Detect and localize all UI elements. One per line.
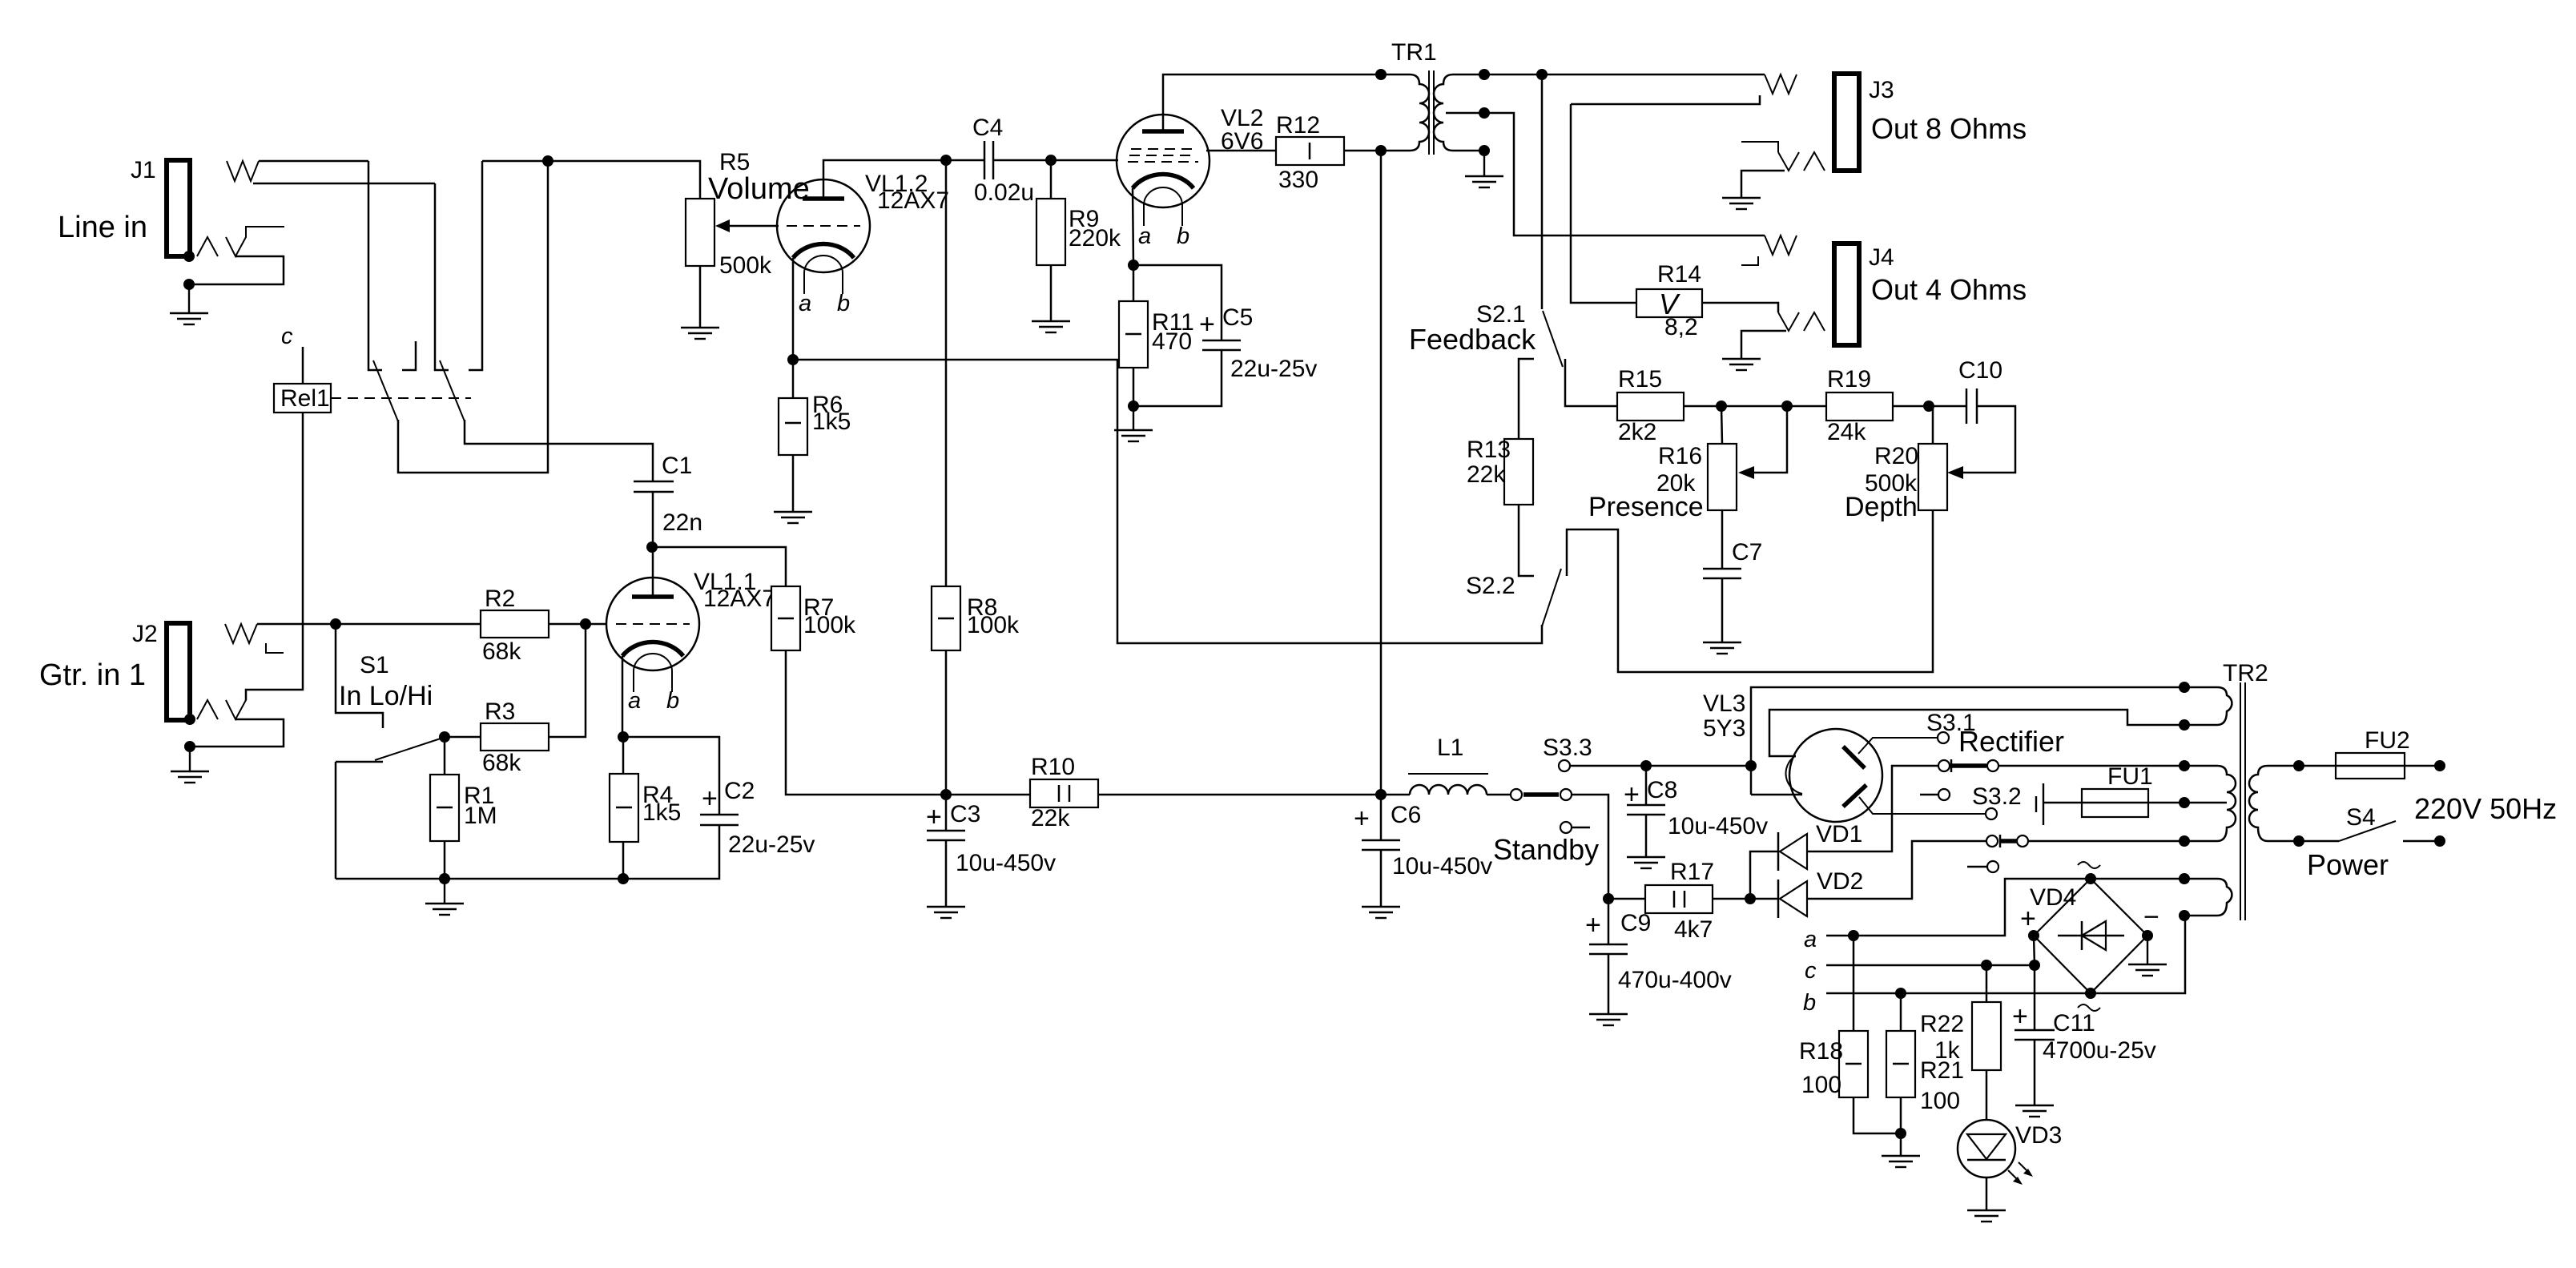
svg-text:FU1: FU1 bbox=[2107, 763, 2153, 790]
node TR1 primary bottom / B+ bbox=[1375, 145, 1387, 156]
TR2 winding 5V bbox=[2184, 687, 2232, 725]
wire J2 tip to S1 bbox=[257, 623, 336, 626]
svg-text:100: 100 bbox=[1801, 1072, 1841, 1098]
svg-text:220k: 220k bbox=[1069, 225, 1121, 252]
wire J3 switch contact bbox=[1571, 95, 1760, 104]
wire C9 leads bbox=[1608, 899, 1610, 944]
bridge rectifier VD4 bbox=[2020, 862, 2159, 1011]
resistor R1 1M bbox=[430, 775, 497, 841]
wire VL1.2 plate to coupling node bbox=[823, 160, 946, 199]
svg-text:+: + bbox=[702, 783, 718, 814]
wire relay blade1 to volume top node bbox=[398, 161, 548, 473]
TR1 primary winding bbox=[1410, 74, 1429, 151]
node volume feed bbox=[542, 155, 553, 167]
svg-text:C1: C1 bbox=[662, 453, 692, 479]
relay contact 2 mate bbox=[469, 161, 482, 370]
wire plate node to R7 bbox=[652, 547, 786, 586]
wire VD2 anode to S3.2 bbox=[1807, 841, 1986, 899]
R16 wiper arrow bbox=[1753, 406, 1787, 473]
standby alternate throw bbox=[1560, 822, 1572, 833]
wire R7 bottom to supply node bbox=[786, 650, 946, 795]
svg-text:Standby: Standby bbox=[1493, 833, 1599, 866]
wire R8 bottom to supply node bbox=[945, 650, 948, 795]
wire VD4 left to c row bbox=[2034, 936, 2035, 965]
wire VL1.1 plate to C1/R7 bbox=[652, 547, 654, 597]
ground C6 bbox=[1362, 907, 1400, 918]
svg-text:10u-450v: 10u-450v bbox=[956, 850, 1056, 876]
node J2 ground lug bbox=[184, 741, 195, 752]
ground R18/R21 bbox=[1882, 1156, 1920, 1167]
J2 sleeve contact bbox=[197, 700, 218, 719]
capacitor C10 bbox=[1958, 357, 2002, 424]
node VL2 grid / R9 bbox=[1045, 155, 1057, 166]
resistor R18 100 bbox=[1799, 1031, 1868, 1098]
wire FU2 leads bbox=[2299, 765, 2336, 767]
node TR2 5V top bbox=[2179, 682, 2190, 693]
svg-text:+: + bbox=[1624, 779, 1640, 810]
svg-text:J3: J3 bbox=[1869, 77, 1894, 103]
capacitor C11 4700u-25v bbox=[2012, 1001, 2156, 1064]
TR2 primary winding bbox=[2249, 766, 2299, 841]
diode VD2 bbox=[1778, 868, 1863, 918]
node VD1/VD2 cathode bbox=[1745, 893, 1756, 904]
svg-text:S3.2: S3.2 bbox=[1972, 783, 2022, 810]
svg-text:L1: L1 bbox=[1437, 735, 1463, 761]
S1 upper contact bbox=[336, 624, 383, 728]
svg-text:J4: J4 bbox=[1869, 244, 1894, 271]
svg-text:1k: 1k bbox=[1934, 1037, 1961, 1064]
wire VD3 bottom bbox=[1986, 1177, 1988, 1210]
S3.1 alternate throw stub bbox=[1938, 789, 1950, 800]
resistor R22 1k bbox=[1920, 1002, 2001, 1070]
switch S3.3 standby pole bbox=[1511, 789, 1522, 800]
J3 sleeve contact bbox=[1778, 152, 1799, 171]
svg-text:a: a bbox=[799, 291, 811, 316]
svg-text:VD1: VD1 bbox=[1816, 821, 1862, 847]
relay contact 2 fixed (from J1 lower) bbox=[435, 183, 449, 370]
resistor R12 330 bbox=[1276, 112, 1344, 193]
J1 tip contact bbox=[227, 161, 259, 181]
svg-text:8,2: 8,2 bbox=[1664, 314, 1698, 340]
svg-text:10u-450v: 10u-450v bbox=[1392, 853, 1492, 880]
wire TR1 secondary mid tap to J4 bbox=[1446, 113, 1765, 235]
wire J1 tip to relay contact bbox=[259, 160, 368, 163]
node secondary bottom bbox=[1479, 145, 1490, 156]
wire J2 sleeve loop bbox=[190, 719, 284, 747]
wire c row bbox=[1826, 964, 2035, 967]
switch S2.1 Feedback bbox=[1409, 301, 1536, 356]
svg-text:R19: R19 bbox=[1827, 366, 1871, 392]
capacitor C7 bbox=[1703, 539, 1762, 578]
node VD4 left bbox=[2028, 930, 2039, 941]
node cathode VL1.1 bbox=[618, 731, 629, 743]
wire L1 to standby bbox=[1381, 794, 1410, 796]
TR1 core bbox=[1428, 70, 1430, 155]
svg-text:68k: 68k bbox=[482, 638, 521, 665]
TR2 core bbox=[2240, 682, 2241, 920]
node B+ / L1 bbox=[1375, 789, 1387, 800]
relay contact 1 fixed (from J1 tip) bbox=[368, 161, 382, 370]
svg-text:R14: R14 bbox=[1657, 261, 1701, 288]
node VL1.1 plate bbox=[646, 541, 658, 553]
wire R16 top lead bbox=[1721, 406, 1722, 444]
wire R1 leads bbox=[444, 737, 446, 775]
choke L1 bbox=[1408, 735, 1488, 795]
wire TR1 secondary bottom bbox=[1453, 150, 1484, 152]
svg-text:1M: 1M bbox=[464, 803, 497, 829]
svg-text:b: b bbox=[837, 291, 850, 316]
svg-text:b: b bbox=[666, 688, 679, 714]
svg-text:VD2: VD2 bbox=[1817, 868, 1863, 895]
wire VL2 plate up to TR1 bbox=[1163, 74, 1410, 131]
node secondary top / S2.1 bbox=[1536, 69, 1548, 80]
svg-text:C11: C11 bbox=[2053, 1010, 2095, 1037]
svg-text:C6: C6 bbox=[1391, 802, 1421, 828]
svg-text:100: 100 bbox=[1920, 1088, 1960, 1114]
node C9 / R17 bbox=[1603, 893, 1614, 904]
TR2 winding 6.3V bbox=[2184, 879, 2232, 916]
wire R20 top to C10 node bbox=[1929, 406, 1933, 444]
node C4 left bbox=[940, 155, 952, 166]
svg-text:12AX7: 12AX7 bbox=[703, 586, 775, 612]
S3.2 alternate throw stub bbox=[1987, 861, 1998, 872]
wire R3 to grid node bbox=[549, 624, 586, 737]
wire R16 bottom to C7 bbox=[1721, 510, 1724, 569]
svg-text:1k5: 1k5 bbox=[642, 799, 681, 826]
resistor R7 100k bbox=[771, 586, 856, 650]
svg-text:330: 330 bbox=[1278, 167, 1318, 193]
wire VD4 top to TR2 6.3V top bbox=[2091, 878, 2184, 880]
resistor R4 1k5 bbox=[610, 774, 681, 842]
wire S1 pivot to ground bus bbox=[335, 762, 337, 879]
node c / VD4 plus bbox=[2029, 960, 2040, 971]
wire presence bus bbox=[1684, 405, 1826, 408]
wire S3.1 to TR2 HV top bbox=[1998, 765, 2184, 767]
svg-text:R20: R20 bbox=[1874, 443, 1918, 469]
capacitor C8 10u-450v bbox=[1624, 777, 1768, 839]
node R18/R21 junction bbox=[1895, 1128, 1906, 1139]
TR1 secondary winding bbox=[1434, 74, 1453, 151]
resistor R17 4k7 bbox=[1645, 859, 1714, 943]
J4 tip contact bbox=[1765, 235, 1797, 255]
wire VL3 filament lead 2 to TR2 bbox=[1769, 710, 2184, 756]
wire R18/R21 bottoms bbox=[1854, 1097, 1901, 1133]
jack J2 bbox=[39, 621, 190, 720]
LED VD3 bbox=[1958, 1120, 2062, 1185]
svg-text:R12: R12 bbox=[1276, 112, 1320, 139]
svg-text:VL3: VL3 bbox=[1703, 690, 1745, 717]
wire VL2 cathode down bbox=[1133, 188, 1133, 265]
node TR2 HV bottom bbox=[2179, 835, 2190, 847]
svg-text:C7: C7 bbox=[1732, 539, 1762, 566]
wire C2 top to cathode node bbox=[623, 737, 719, 815]
wire VL1.2 cathode down bbox=[792, 258, 795, 360]
svg-text:R22: R22 bbox=[1920, 1011, 1964, 1037]
svg-text:c: c bbox=[1805, 958, 1817, 984]
resistor R10 22k bbox=[1030, 754, 1098, 831]
diode VD1 bbox=[1778, 821, 1862, 871]
svg-text:22u-25v: 22u-25v bbox=[728, 831, 815, 858]
jack J1 bbox=[58, 157, 190, 256]
svg-text:+: + bbox=[1354, 803, 1370, 834]
svg-text:S2.2: S2.2 bbox=[1466, 573, 1515, 599]
svg-text:R17: R17 bbox=[1670, 859, 1714, 885]
svg-text:24k: 24k bbox=[1827, 419, 1866, 445]
node VL1.2 cathode / feedback bbox=[787, 354, 799, 365]
wire B+ vertical bbox=[1380, 151, 1383, 795]
jack J3 Out 8 Ohms bbox=[1834, 74, 2027, 171]
node secondary top bbox=[1479, 69, 1490, 80]
wire J4 sleeve to ground bbox=[1741, 331, 1786, 358]
node TR2 primary top bbox=[2293, 760, 2304, 771]
wire R8 top to C4 node bbox=[945, 160, 948, 586]
svg-text:R16: R16 bbox=[1658, 443, 1702, 469]
J4 switch stub bbox=[1741, 256, 1758, 265]
wire C3 leads bbox=[945, 795, 948, 831]
svg-text:C10: C10 bbox=[1958, 357, 2002, 384]
node R1 bottom bbox=[439, 873, 450, 884]
svg-text:Presence: Presence bbox=[1588, 492, 1704, 522]
potentiometer R16 20k Presence bbox=[1588, 443, 1737, 522]
wire R2 to grid node bbox=[549, 623, 586, 626]
svg-text:b: b bbox=[1803, 990, 1816, 1016]
svg-text:220V 50Hz: 220V 50Hz bbox=[2414, 792, 2557, 825]
ground R6 bbox=[774, 512, 812, 523]
wire VL1.1 grid lead bbox=[586, 623, 606, 626]
svg-text:2k2: 2k2 bbox=[1618, 419, 1656, 445]
S2.2 alternate contact from depth loop bbox=[1567, 510, 1933, 672]
svg-text:12AX7: 12AX7 bbox=[877, 187, 949, 214]
wire R13 top contact bbox=[1519, 359, 1534, 439]
wire C8 leads bbox=[1645, 766, 1648, 805]
node VL3 filament / B+ ac bbox=[1745, 760, 1757, 771]
wire R11 leads bbox=[1133, 265, 1135, 301]
svg-text:In Lo/Hi: In Lo/Hi bbox=[339, 681, 433, 711]
wire S3.3 throw to rectifier node bbox=[1570, 765, 1751, 767]
svg-text:4700u-25v: 4700u-25v bbox=[2043, 1037, 2156, 1064]
ground C9 bbox=[1589, 1014, 1628, 1025]
svg-text:Line in: Line in bbox=[58, 211, 147, 244]
svg-text:a: a bbox=[1138, 223, 1151, 249]
svg-text:J1: J1 bbox=[131, 157, 156, 183]
triode VL1.1 12AX7 bbox=[606, 569, 775, 714]
potentiometer R5 500k Volume bbox=[686, 149, 810, 279]
node VD4 bottom bbox=[2085, 988, 2096, 999]
wire R13 bottom contact bbox=[1519, 505, 1534, 576]
resistor R14 8.2 dummy load bbox=[1636, 261, 1702, 340]
svg-text:+: + bbox=[926, 802, 942, 832]
relay actuation dashed link bbox=[331, 397, 471, 399]
wire R17 right to diode cathodes bbox=[1713, 898, 1778, 900]
node TR2 primary bottom bbox=[2293, 835, 2304, 847]
resistor R9 220k bbox=[1036, 199, 1121, 265]
svg-text:Power: Power bbox=[2307, 848, 2389, 881]
wire R19 to C10 bbox=[1893, 405, 1966, 408]
wire R14 left from J3 switch line bbox=[1571, 104, 1636, 303]
wire R12 right to B+ node bbox=[1344, 150, 1410, 152]
wire R10 right to B+ bbox=[1098, 794, 1381, 796]
node S1 out / R1 / R3 bbox=[439, 731, 450, 743]
node VD4 top bbox=[2085, 873, 2096, 884]
switch S3.1 Rectifier bbox=[1926, 710, 2064, 758]
svg-text:Rectifier: Rectifier bbox=[1958, 725, 2064, 758]
svg-text:TR1: TR1 bbox=[1391, 39, 1437, 66]
J3 tip contact bbox=[1765, 74, 1797, 94]
node C10 left bbox=[1923, 401, 1934, 412]
wire VD1 anode to S3.1 bbox=[1807, 766, 1938, 851]
svg-text:500k: 500k bbox=[719, 252, 772, 279]
wire J2 tip to R2 bbox=[336, 623, 481, 626]
svg-text:5Y3: 5Y3 bbox=[1703, 715, 1745, 742]
chassis terminal at FU1 bbox=[2036, 783, 2043, 825]
wire R14 to J4 sleeve bbox=[1702, 303, 1778, 312]
svg-text:−: − bbox=[2143, 902, 2159, 932]
capacitor C4 0.02u bbox=[972, 115, 1034, 206]
svg-text:1k5: 1k5 bbox=[812, 409, 851, 435]
svg-text:Gtr. in 1: Gtr. in 1 bbox=[39, 658, 146, 692]
TR2 winding HV bbox=[2184, 766, 2236, 841]
node J1 ground lug bbox=[183, 279, 195, 290]
svg-text:+: + bbox=[1199, 309, 1215, 340]
wire S2.1 to R15 bbox=[1565, 359, 1617, 406]
jack J4 Out 4 Ohms bbox=[1834, 244, 2027, 345]
capacitor C9 470u-400v bbox=[1585, 910, 1732, 993]
S1 blade bbox=[375, 738, 443, 760]
svg-text:C5: C5 bbox=[1222, 304, 1253, 331]
wire S3.2 to TR2 HV bottom bbox=[2028, 840, 2184, 843]
wire VL3 plate bottom to S3.2 throw bbox=[1859, 797, 1986, 814]
S2.1 blade bbox=[1543, 311, 1563, 367]
node J1 sleeve bbox=[183, 251, 195, 262]
svg-text:68k: 68k bbox=[482, 750, 521, 776]
wire J1 tip lower to relay contact 2 bbox=[253, 183, 435, 185]
wire R4 leads bbox=[622, 737, 625, 774]
ground J2 bbox=[171, 747, 209, 783]
node VL1.1 grid bbox=[580, 618, 591, 630]
potentiometer R20 500k Depth bbox=[1845, 443, 1947, 522]
J1 sleeve contact bbox=[197, 237, 218, 256]
wire R9 leads bbox=[1050, 160, 1053, 199]
node mains line bbox=[2434, 760, 2445, 771]
wire feedback to S2.2 bbox=[793, 360, 1542, 643]
wire FU1 leads bbox=[2044, 802, 2082, 804]
capacitor C1 22n bbox=[634, 453, 702, 536]
ground C8 bbox=[1627, 857, 1665, 868]
node R16 top bbox=[1716, 401, 1727, 412]
svg-text:C3: C3 bbox=[950, 801, 980, 827]
ground VD3 bbox=[1967, 1210, 2006, 1222]
svg-text:+: + bbox=[2020, 904, 2036, 934]
svg-text:R3: R3 bbox=[485, 698, 515, 725]
node a / R18 bbox=[1848, 930, 1859, 941]
svg-text:100k: 100k bbox=[803, 612, 856, 638]
wire grid to VL2 bbox=[1051, 159, 1118, 162]
wire VL2 screen to R12 bbox=[1206, 150, 1276, 152]
wire VL1.1 cathode down bbox=[622, 656, 624, 737]
capacitor C6 10u-450v bbox=[1354, 802, 1492, 880]
J2 tip contact bbox=[225, 624, 257, 643]
wire S2.1 pole from TR1 bbox=[1541, 74, 1544, 309]
svg-text:VD4: VD4 bbox=[2030, 884, 2076, 911]
wire R5 bottom to ground bbox=[699, 266, 702, 327]
wire C11 leads bbox=[2034, 965, 2036, 1030]
svg-text:a: a bbox=[628, 688, 641, 714]
node VL2 cathode bbox=[1128, 260, 1139, 271]
relay blade 2 bbox=[440, 360, 465, 421]
wire J3 sleeve to ground bbox=[1741, 171, 1785, 197]
wire C7 bottom bbox=[1721, 578, 1724, 642]
svg-text:Feedback: Feedback bbox=[1409, 323, 1536, 356]
svg-text:22k: 22k bbox=[1467, 461, 1506, 488]
resistor R19 24k bbox=[1826, 366, 1893, 445]
ground C3 bbox=[927, 907, 965, 918]
svg-text:Depth: Depth bbox=[1845, 492, 1918, 522]
svg-text:C8: C8 bbox=[1647, 777, 1677, 803]
node R16 wiper bbox=[1781, 401, 1793, 412]
ground C11 bbox=[2015, 1105, 2054, 1117]
svg-text:R15: R15 bbox=[1618, 366, 1662, 392]
node J2 sleeve bbox=[184, 714, 195, 725]
svg-text:S4: S4 bbox=[2346, 804, 2376, 831]
svg-text:R10: R10 bbox=[1031, 754, 1075, 780]
wire VD4 bottom to TR2 6.3V bottom bbox=[2091, 916, 2185, 993]
svg-text:470: 470 bbox=[1152, 328, 1192, 355]
svg-text:S3.3: S3.3 bbox=[1543, 735, 1592, 761]
wire C5 top to cathode bbox=[1133, 265, 1222, 340]
svg-text:10u-450v: 10u-450v bbox=[1668, 813, 1768, 839]
wire b row bbox=[1826, 992, 2091, 995]
capacitor C5 22u-25v bbox=[1199, 304, 1317, 382]
tetrode VL2 6V6 bbox=[1117, 105, 1263, 249]
wire R18 top bbox=[1853, 936, 1855, 1031]
svg-text:R18: R18 bbox=[1799, 1038, 1843, 1065]
wire R17 left bbox=[1608, 898, 1645, 900]
svg-text:VD3: VD3 bbox=[2015, 1122, 2062, 1149]
wire C2 bottom to ground bus bbox=[336, 825, 719, 879]
wire TR1 secondary top bbox=[1453, 74, 1765, 76]
svg-text:R2: R2 bbox=[485, 586, 515, 612]
node c / R22 bbox=[1981, 960, 1992, 971]
wire volume feed (top bus) bbox=[482, 161, 700, 199]
svg-text:0.02u: 0.02u bbox=[974, 179, 1034, 206]
wire J1 sleeve loop bbox=[190, 256, 284, 284]
node TR2 6.3V top bbox=[2179, 873, 2190, 884]
node secondary mid bbox=[1479, 107, 1490, 119]
svg-text:22n: 22n bbox=[662, 509, 702, 536]
resistor R15 2k2 bbox=[1617, 366, 1684, 445]
node mains neutral bbox=[2434, 835, 2445, 847]
svg-text:+: + bbox=[2012, 1001, 2028, 1032]
wire TR2 HV center tap bbox=[2184, 802, 2227, 804]
wire C1 bottom to plate node bbox=[652, 492, 654, 547]
fuse FU2 bbox=[2336, 727, 2410, 779]
resistor R21 100 bbox=[1886, 1031, 1964, 1114]
resistor R8 100k bbox=[932, 586, 1020, 650]
ground C7 bbox=[1703, 642, 1741, 654]
resistor R13 22k bbox=[1467, 437, 1533, 505]
fuse FU1 bbox=[2082, 763, 2153, 817]
wire standby out bbox=[1572, 795, 1608, 899]
node J2 tip / S1 bbox=[330, 618, 341, 630]
ground J1 bbox=[170, 284, 208, 324]
resistor R11 470 bbox=[1119, 301, 1194, 368]
ground R5 bbox=[681, 328, 719, 339]
wire VL3 filament lead 1 to TR2 bbox=[1751, 794, 1802, 796]
svg-text:4k7: 4k7 bbox=[1674, 916, 1713, 943]
S1 pivot wire bbox=[336, 761, 383, 763]
switch S4 Power bbox=[2307, 804, 2389, 881]
resistor R3 68k bbox=[481, 698, 549, 776]
